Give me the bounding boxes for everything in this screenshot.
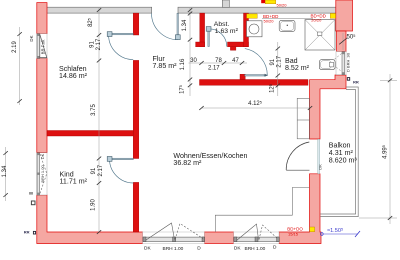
balcony railing outer [320, 87, 358, 217]
outer wall left lower and bottom segment A [37, 195, 143, 244]
label 91 schlafen door rotated [89, 41, 95, 48]
label 17.5 rotated [179, 85, 186, 94]
label window kind rotated D [29, 192, 35, 205]
label window kind rotated DK [40, 153, 45, 159]
label 2.19 rotated [12, 41, 18, 53]
svg-text:36.82 m²: 36.82 m² [173, 159, 202, 167]
label BD+DD 50/20 [263, 14, 279, 24]
window bottom 1 cavity [143, 232, 205, 244]
window bad opening dashes [331, 54, 342, 72]
label 1.90 rotated [90, 199, 96, 211]
svg-text:50/20: 50/20 [277, 2, 288, 7]
toilet [319, 60, 335, 70]
label DK schlafen window [29, 35, 34, 41]
outer wall top right corner block [336, 0, 353, 31]
svg-text:91: 91 [91, 167, 97, 174]
door balcony leaf [286, 169, 309, 171]
dimension line horizontal flur top [189, 62, 248, 64]
marker yellow bad left [247, 14, 258, 18]
label 2.17 bad door rotated [277, 55, 283, 67]
wall top gray band right segment [178, 7, 337, 13]
door entrance arc [152, 13, 179, 40]
wall red schlafen-flur upper stub [133, 13, 139, 35]
label BD+DO 15/15 [287, 227, 303, 237]
dimension line 4.12 [202, 107, 311, 109]
svg-text:Abst.: Abst. [214, 21, 230, 28]
svg-text:RR: RR [353, 79, 359, 84]
svg-text:1.16: 1.16 [180, 58, 186, 70]
svg-text:2.17: 2.17 [96, 38, 102, 50]
svg-text:2.17: 2.17 [277, 55, 283, 67]
dimension line left 2.19 [19, 27, 21, 105]
svg-text:D BRH .90: D BRH .90 [345, 52, 350, 72]
svg-text:BRH 1.00: BRH 1.00 [163, 246, 184, 252]
outer wall corner block bad bottom and right wall upper [310, 75, 347, 139]
wall red bad door hinge stub [240, 74, 245, 79]
label window1 D [197, 245, 201, 251]
wall red kind-wohnen lower [133, 182, 139, 232]
label window schlafen BR Fix rotated [41, 39, 46, 55]
wall red abst bottom left stub [196, 42, 205, 47]
ticks dim x278 [276, 47, 280, 88]
sink bad [279, 20, 295, 31]
window kind opening dashes [40, 154, 47, 194]
door entrance leaf [175, 13, 180, 39]
label 2.17 kind door rotated [98, 164, 104, 176]
svg-text:2.17: 2.17 [208, 66, 220, 72]
dimension line right 4.99 [359, 74, 397, 224]
svg-text:1.34: 1.34 [2, 165, 8, 177]
door bad leaf with arrow [245, 74, 269, 77]
label room schlafen [59, 65, 88, 80]
window schlafen opening flag [40, 34, 47, 57]
svg-text:D: D [273, 245, 277, 251]
svg-text:3.75: 3.75 [91, 104, 97, 116]
door abst leaf [206, 27, 211, 47]
window bottom 2 opening triangles [237, 224, 278, 241]
washing machine [247, 21, 263, 37]
wall top gray band left segment [47, 7, 152, 13]
outer wall left upper [37, 3, 47, 34]
tick dim 1.50 [355, 231, 360, 237]
ticks dim 4.99 [388, 78, 392, 220]
svg-text:91: 91 [270, 58, 276, 65]
window bottom 2 cavity [234, 232, 280, 244]
label 47 [232, 58, 239, 64]
svg-text:DK: DK [318, 164, 323, 170]
kitchen counter outline [215, 188, 309, 232]
svg-text:BRH 1.00: BRH 1.00 [40, 165, 45, 183]
label 1.16 rotated [180, 58, 186, 70]
door balcony arc [286, 142, 309, 170]
wall red schlafen-kind-wohnen middle [133, 60, 139, 158]
label window1 DK [144, 245, 151, 251]
outer wall bottom segment B [205, 232, 234, 244]
door schlafen arc [109, 35, 134, 60]
ticks dim 4.12 [199, 106, 312, 110]
svg-text:78: 78 [215, 58, 222, 64]
wall red jamb stub below abst [230, 47, 236, 50]
label BD+DD 20/20 [311, 14, 327, 23]
dimension line x188 flur [189, 8, 191, 96]
svg-text:8.620 m³: 8.620 m³ [329, 157, 358, 165]
window bad right cavity [336, 52, 346, 75]
svg-text:30: 30 [190, 58, 197, 64]
svg-text:20/20: 20/20 [311, 18, 322, 23]
svg-text:7.85 m²: 7.85 m² [153, 62, 178, 70]
shower [305, 20, 335, 50]
label DK balcony door rotated [318, 164, 323, 170]
marker yellow bottom right [310, 227, 315, 232]
outer wall left middle [37, 58, 47, 152]
svg-text:2.17: 2.17 [98, 164, 104, 176]
ticks dim x188 [188, 8, 192, 87]
kitchen tall unit [297, 98, 309, 139]
svg-text:DK: DK [29, 35, 34, 41]
label window1 BRH 1.00 [163, 246, 184, 252]
svg-text:RR: RR [24, 230, 30, 235]
label 2.17 schlafen door rotated [96, 38, 102, 50]
label room abst [214, 21, 239, 35]
label 50.5 [347, 34, 356, 41]
label window2 BRH 1.00 [245, 246, 266, 252]
svg-text:15/15: 15/15 [288, 232, 299, 237]
svg-text:47: 47 [232, 58, 239, 64]
wall red abst left [200, 13, 205, 47]
dimension line x98 [98, 8, 100, 232]
circle start dim 1.50 [320, 233, 323, 236]
window bottom 1 opening triangles [146, 223, 203, 240]
svg-text:BR F.ok: BR F.ok [41, 39, 46, 55]
svg-text:DK: DK [234, 245, 241, 251]
label RR bottom left [24, 230, 36, 235]
door kind leaf [107, 157, 133, 162]
label 82.5 rotated [88, 18, 95, 27]
ticks dim x98 [97, 8, 101, 234]
svg-text:1.90: 1.90 [90, 199, 96, 211]
label 1.34 rotated [2, 165, 8, 177]
duct line under BD+DD [262, 18, 313, 20]
label room kind [60, 170, 88, 185]
label 3.75 rotated [91, 104, 97, 116]
label room balkon [329, 142, 358, 165]
label 4.99 rotated [382, 145, 389, 159]
label 78 [215, 58, 222, 64]
label window kind rotated BRH [40, 165, 45, 183]
dimension line x278 bad door [277, 42, 279, 96]
wall red schlafen-kind divider [47, 131, 133, 137]
label 12.5 rotated [269, 84, 276, 93]
dimension line left 1.34 [5, 147, 7, 201]
svg-text:1.34: 1.34 [182, 19, 188, 31]
svg-text:2.19: 2.19 [12, 41, 18, 53]
label room wohnen [173, 152, 247, 167]
door schlafen leaf [107, 32, 133, 37]
label 91 bad door rotated [270, 58, 276, 65]
label 91 kind door rotated [91, 167, 97, 174]
outer wall right bad upper [337, 31, 347, 52]
ticks dim left 2.19 [17, 32, 21, 103]
label window2 DK [234, 245, 241, 251]
door balcony glass [318, 139, 320, 174]
label 4.12 [248, 101, 262, 108]
dimension blue 1.50 balcony [322, 233, 359, 235]
wall red abst bottom right [228, 42, 249, 47]
dimension 50.5 wall right [342, 33, 344, 50]
wall stub above band [222, 0, 229, 7]
label room flur [153, 55, 178, 70]
svg-text:14.86 m²: 14.86 m² [59, 72, 88, 80]
svg-text:11.71 m²: 11.71 m² [60, 177, 88, 185]
door kind arc [110, 159, 134, 183]
label 1.50 blue [327, 228, 343, 235]
outer wall bottom segment C with right wall corner [279, 174, 321, 244]
door abst arc [209, 29, 227, 47]
label 30 [190, 58, 197, 64]
window kind left cavity [37, 153, 47, 195]
label 50/20 top edge [277, 2, 288, 7]
door bad arc [245, 49, 267, 76]
svg-text:D: D [197, 245, 201, 251]
window schlafen left cavity [37, 34, 47, 59]
label 2.17 flur [208, 66, 220, 72]
label window bad rotated BRH [345, 52, 350, 72]
label 1.34 entrance rotated [182, 19, 188, 31]
svg-text:DK: DK [40, 153, 45, 159]
marker yellow top edge with red square [261, 0, 276, 4]
label window2 D [273, 245, 277, 251]
svg-text:8.52 m²: 8.52 m² [285, 64, 310, 72]
svg-text:≈1.505: ≈1.505 [327, 228, 343, 235]
wall red abst right [244, 13, 249, 47]
ticks dim horizontal flur [199, 61, 244, 65]
svg-text:50/20: 50/20 [264, 18, 275, 23]
label room bad [285, 57, 310, 72]
svg-text:DK: DK [144, 245, 151, 251]
svg-text:91: 91 [89, 41, 95, 48]
svg-text:1.63 m²: 1.63 m² [215, 28, 239, 35]
svg-text:BRH 1.00: BRH 1.00 [245, 246, 266, 252]
balcony railing inner [320, 90, 355, 214]
tick dim 50.5 [339, 38, 347, 44]
marker yellow bad right [330, 13, 335, 18]
wall red wohnen top long [200, 80, 309, 86]
ticks dim left 1.34 [3, 151, 7, 197]
label RR right [347, 78, 359, 85]
